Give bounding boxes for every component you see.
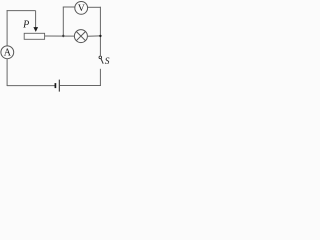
wire rheostat to lamp [45, 35, 75, 37]
voltmeter V [75, 2, 88, 15]
node junction on lamp wire [62, 35, 64, 37]
wire ammeter to bottom rail [6, 59, 8, 86]
svg-text:V: V [78, 4, 85, 14]
svg-text:A: A [4, 48, 12, 59]
svg-text:P: P [22, 20, 29, 31]
wire bottom rail right [60, 85, 101, 87]
svg-text:S: S [105, 57, 110, 67]
wire top right horizontal (corner to voltmeter) [88, 6, 101, 8]
wire right rail lower (switch contact to bottom corner) [99, 69, 101, 86]
rheostat P [22, 11, 44, 40]
wire lamp to right rail [87, 35, 100, 37]
node junction on right rail [99, 35, 101, 37]
wire bottom rail left [7, 85, 55, 87]
wire voltmeter to left corner [63, 6, 75, 8]
wire top-left horizontal [7, 10, 36, 12]
battery (short thick negative plate) [54, 83, 56, 88]
lamp [74, 30, 87, 43]
battery (tall thin positive plate) [58, 80, 60, 92]
ammeter A [1, 46, 14, 59]
switch S [99, 56, 110, 67]
wire right rail upper (top corner down to switch pivot) [99, 7, 101, 56]
wire left vertical (top corner to ammeter) [6, 10, 8, 46]
wire voltmeter branch vertical [62, 7, 64, 36]
